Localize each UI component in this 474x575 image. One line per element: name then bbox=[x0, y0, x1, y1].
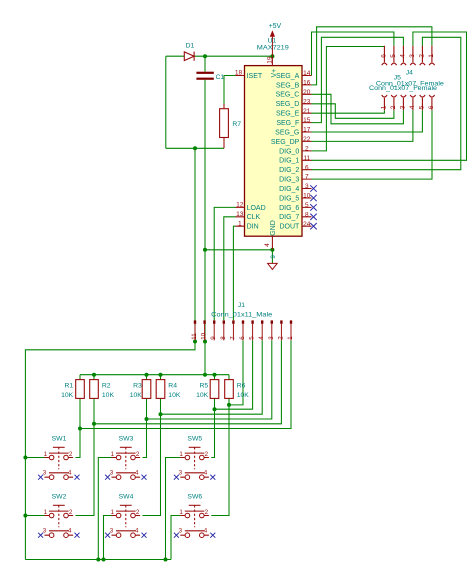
U1 pin stubs bbox=[236, 56, 312, 250]
svg-text:2: 2 bbox=[205, 509, 209, 516]
wire SEG_D to J5 pin2 bbox=[312, 104, 394, 119]
svg-text:2: 2 bbox=[418, 54, 425, 58]
svg-text:18: 18 bbox=[235, 70, 243, 77]
wire J1 pin5 to R5 bottom bus bbox=[215, 341, 253, 410]
svg-text:11: 11 bbox=[191, 333, 198, 340]
svg-text:DIG_6: DIG_6 bbox=[279, 205, 299, 212]
svg-text:SW6: SW6 bbox=[187, 493, 202, 500]
no-connect X SW2 pin3 bbox=[38, 533, 43, 538]
svg-text:10K: 10K bbox=[61, 392, 74, 399]
svg-text:R1: R1 bbox=[64, 382, 73, 389]
svg-text:9: 9 bbox=[210, 336, 217, 340]
svg-text:SW5: SW5 bbox=[187, 436, 202, 443]
wire J1 pin11 jog bbox=[25, 342, 195, 560]
wire LOAD to J1 pin 9 bbox=[214, 207, 235, 320]
power +5V symbol bbox=[271, 32, 275, 57]
svg-text:1: 1 bbox=[179, 451, 183, 458]
wire SW1 pin1 to left rail bbox=[25, 457, 44, 459]
wire DIG_2 to J4 pin2 bbox=[312, 37, 461, 169]
svg-text:3: 3 bbox=[305, 183, 309, 190]
wire J1 pin2 to R2 bottom bus bbox=[94, 341, 281, 424]
switch SW6 symbol bbox=[180, 505, 209, 537]
wire DIG_0 to J4 pin6 bbox=[312, 47, 385, 151]
svg-text:10: 10 bbox=[303, 193, 311, 200]
wire R1 top lead bbox=[79, 375, 81, 380]
no-connect X DOUT bbox=[310, 223, 316, 229]
wire R4 bottom to SW4 pin2 bbox=[143, 398, 161, 515]
resistor R3 body bbox=[142, 380, 151, 399]
wire CLK to J1 pin 8 bbox=[224, 217, 236, 320]
junction bottom rail col2b bbox=[102, 558, 106, 562]
resistor R6 body bbox=[225, 380, 234, 399]
wire bottom rail D1/C1/R7 bbox=[166, 147, 224, 149]
wire SW4 pin1 drop bbox=[104, 516, 112, 560]
svg-text:10K: 10K bbox=[130, 392, 143, 399]
diode D1 bbox=[184, 52, 194, 61]
resistor R2 body bbox=[90, 380, 99, 399]
svg-text:J1: J1 bbox=[238, 302, 245, 309]
svg-text:3: 3 bbox=[268, 336, 275, 340]
svg-text:Conn_01x07_Female: Conn_01x07_Female bbox=[369, 85, 437, 92]
svg-text:23: 23 bbox=[303, 98, 311, 105]
junction R5 bottom bbox=[213, 407, 217, 411]
wire SEG_C to J5 pin3 bbox=[312, 94, 404, 124]
svg-text:DIN: DIN bbox=[247, 224, 259, 231]
svg-text:3: 3 bbox=[179, 469, 183, 476]
svg-text:20: 20 bbox=[303, 89, 311, 96]
wire R1 bottom to SW1 pin2 bbox=[76, 398, 81, 457]
svg-text:1: 1 bbox=[428, 54, 435, 58]
switch SW5 symbol bbox=[180, 447, 209, 479]
svg-text:DIG_1: DIG_1 bbox=[279, 158, 299, 165]
no-connect X SW4 pin3 bbox=[105, 533, 110, 538]
no-connect X DIG_5 bbox=[310, 195, 316, 201]
junction SW2 pin1 rail bbox=[23, 514, 27, 518]
svg-text:2: 2 bbox=[136, 451, 140, 458]
switch SW3 symbol bbox=[112, 447, 141, 479]
svg-text:10K: 10K bbox=[237, 392, 250, 399]
junction resistor top bus bbox=[145, 373, 149, 377]
capacitor C1 bbox=[196, 72, 213, 80]
svg-text:6: 6 bbox=[428, 105, 435, 109]
svg-text:1: 1 bbox=[44, 451, 48, 458]
svg-text:ISET: ISET bbox=[247, 73, 263, 80]
svg-text:4: 4 bbox=[204, 527, 208, 534]
svg-text:Conn_01x11_Male: Conn_01x11_Male bbox=[211, 311, 272, 318]
wire R3 bottom to SW3 pin2 bbox=[143, 398, 147, 457]
svg-text:5: 5 bbox=[418, 105, 425, 109]
svg-text:3: 3 bbox=[399, 105, 406, 109]
wire J1 pin6 to R6 bottom bus bbox=[229, 341, 243, 405]
svg-text:7: 7 bbox=[305, 174, 309, 181]
svg-text:1: 1 bbox=[287, 336, 294, 340]
svg-text:R5: R5 bbox=[199, 382, 208, 389]
wire R3 top lead bbox=[146, 375, 148, 380]
svg-text:LOAD: LOAD bbox=[247, 205, 266, 212]
switch SW4 symbol bbox=[112, 505, 141, 537]
svg-text:2: 2 bbox=[136, 509, 140, 516]
svg-text:R6: R6 bbox=[237, 382, 246, 389]
svg-text:MAX7219: MAX7219 bbox=[257, 45, 289, 52]
svg-text:SEG_A: SEG_A bbox=[276, 73, 300, 80]
wire resistor top bus bbox=[80, 374, 229, 376]
svg-text:SW1: SW1 bbox=[52, 436, 67, 443]
no-connect X SW5 pin4 bbox=[210, 475, 215, 480]
svg-text:DIG_7: DIG_7 bbox=[279, 214, 299, 221]
no-connect X DIG_6 bbox=[310, 204, 316, 210]
wire GND to C1 column bbox=[205, 249, 272, 251]
wire SEG_B to J4 pin1 bbox=[312, 27, 432, 85]
no-connect X SW1 pin4 bbox=[75, 475, 80, 480]
svg-text:10K: 10K bbox=[168, 392, 181, 399]
wire DIN to J1 pin 7 bbox=[233, 226, 235, 320]
svg-text:5: 5 bbox=[249, 336, 256, 340]
svg-text:R3: R3 bbox=[133, 382, 142, 389]
wire J1 pin1 to R1 bottom bus bbox=[80, 341, 291, 429]
svg-text:7: 7 bbox=[229, 336, 236, 340]
svg-text:5: 5 bbox=[390, 54, 397, 58]
svg-text:J4: J4 bbox=[406, 70, 413, 77]
svg-text:3: 3 bbox=[110, 469, 114, 476]
wire bottom common rail bbox=[25, 559, 171, 561]
svg-text:SEG_F: SEG_F bbox=[276, 120, 299, 127]
svg-text:SEG_G: SEG_G bbox=[275, 129, 299, 136]
wire rail down-column to J1 pin 11 bbox=[194, 148, 196, 341]
svg-text:DIG_3: DIG_3 bbox=[279, 177, 299, 184]
svg-text:R7: R7 bbox=[232, 121, 241, 128]
svg-text:21: 21 bbox=[303, 108, 311, 115]
wire SW3 pin1 drop bbox=[98, 458, 111, 560]
junction R3 bottom bbox=[145, 417, 149, 421]
wire diode cathode to V+ pin bbox=[194, 55, 272, 57]
svg-text:5: 5 bbox=[305, 202, 309, 209]
no-connect X SW1 pin3 bbox=[38, 475, 43, 480]
svg-text:17: 17 bbox=[303, 127, 311, 134]
svg-text:SEG_E: SEG_E bbox=[276, 111, 300, 118]
no-connect X DIG_4 bbox=[310, 185, 316, 191]
svg-text:4: 4 bbox=[68, 469, 72, 476]
wire R2 top lead bbox=[93, 375, 95, 380]
junction resistor top bus bbox=[92, 373, 96, 377]
wire SW5 pin1 drop bbox=[166, 458, 181, 560]
svg-text:6: 6 bbox=[380, 54, 387, 58]
svg-text:J5: J5 bbox=[394, 74, 401, 81]
svg-text:SEG_C: SEG_C bbox=[276, 92, 300, 99]
connector J5 Conn_01x07_Female pins bbox=[382, 95, 435, 110]
wire C1 top lead bbox=[204, 56, 206, 71]
junction R6 bottom bbox=[227, 403, 231, 407]
wire left drop from diode anode bbox=[165, 56, 167, 148]
junction V+ pin bbox=[270, 54, 274, 58]
svg-text:11: 11 bbox=[303, 155, 310, 162]
wire R5 top lead bbox=[214, 375, 216, 380]
svg-text:6: 6 bbox=[239, 336, 246, 340]
wire SEG_DP to J5 pin4 bbox=[312, 110, 413, 141]
svg-text:GND: GND bbox=[270, 220, 277, 236]
junction resistor top bus bbox=[213, 373, 217, 377]
wire DIG_1 to J4 pin3 bbox=[312, 32, 467, 160]
resistor R5 body bbox=[210, 380, 219, 399]
svg-text:DIG_2: DIG_2 bbox=[279, 167, 299, 174]
junction SW1 pin1 rail bbox=[23, 456, 27, 460]
svg-text:3: 3 bbox=[43, 527, 47, 534]
svg-text:2: 2 bbox=[305, 146, 309, 153]
no-connect X SW3 pin4 bbox=[142, 475, 147, 480]
wire SW2 pin1 to left rail bbox=[25, 515, 44, 517]
svg-text:U1: U1 bbox=[267, 38, 276, 45]
svg-text:DIG_4: DIG_4 bbox=[279, 186, 299, 193]
wire R4 top lead bbox=[160, 375, 162, 380]
wire R6 bottom to SW6 pin2 bbox=[211, 398, 229, 515]
svg-text:2: 2 bbox=[205, 451, 209, 458]
wire +5V rail to diode anode bbox=[166, 55, 185, 57]
resistor R4 body bbox=[156, 380, 165, 399]
wire C1 bottom / column to J1 pin 10 and resistor bus bbox=[204, 80, 206, 375]
svg-text:9: 9 bbox=[270, 255, 277, 259]
op-amp U1 MAX7219 body bbox=[245, 66, 303, 237]
svg-text:1: 1 bbox=[179, 509, 183, 516]
svg-text:3: 3 bbox=[43, 469, 47, 476]
svg-text:10K: 10K bbox=[102, 392, 115, 399]
no-connect X SW2 pin4 bbox=[75, 533, 80, 538]
switch SW2 symbol bbox=[45, 505, 74, 537]
junction resistor top bus bbox=[203, 373, 207, 377]
svg-text:16: 16 bbox=[303, 80, 311, 87]
junction GND pin bbox=[270, 248, 274, 252]
svg-text:10: 10 bbox=[201, 332, 208, 339]
wire SEG_F to J4 pin4 bbox=[312, 37, 404, 122]
svg-text:6: 6 bbox=[305, 164, 309, 171]
svg-text:+5V: +5V bbox=[269, 23, 282, 30]
svg-text:4: 4 bbox=[135, 527, 139, 534]
no-connect X SW5 pin3 bbox=[174, 475, 179, 480]
svg-text:4: 4 bbox=[258, 336, 265, 340]
svg-text:DOUT: DOUT bbox=[279, 224, 300, 231]
wire J1 pin3 to R3 bottom bus bbox=[147, 341, 272, 420]
junction resistor top bus bbox=[159, 373, 163, 377]
svg-text:SW3: SW3 bbox=[119, 436, 134, 443]
wire J1 pin4 to R4 bottom bus bbox=[161, 341, 263, 415]
svg-text:C1: C1 bbox=[216, 74, 225, 81]
svg-text:1: 1 bbox=[380, 105, 387, 109]
svg-text:22: 22 bbox=[303, 136, 311, 143]
resistor R1 body bbox=[76, 380, 85, 399]
wire SEG_G to J5 pin5 bbox=[312, 110, 423, 132]
svg-text:SEG_DP: SEG_DP bbox=[271, 139, 300, 146]
svg-text:15: 15 bbox=[303, 117, 311, 124]
svg-text:4: 4 bbox=[409, 105, 416, 109]
no-connect X SW6 pin3 bbox=[174, 533, 179, 538]
wire R2 bottom to SW2 pin2 bbox=[76, 398, 95, 515]
no-connect X SW6 pin4 bbox=[210, 533, 215, 538]
no-connect X SW4 pin4 bbox=[142, 533, 147, 538]
junction R2 bottom bbox=[92, 422, 96, 426]
svg-text:DIG_0: DIG_0 bbox=[279, 148, 299, 155]
svg-text:24: 24 bbox=[303, 221, 311, 228]
junction R1 bottom bbox=[78, 427, 82, 431]
svg-text:CLK: CLK bbox=[247, 214, 261, 221]
svg-text:1: 1 bbox=[44, 509, 48, 516]
junction diode-C1-V+ bbox=[203, 54, 207, 58]
svg-text:SW4: SW4 bbox=[119, 493, 134, 500]
svg-text:4: 4 bbox=[204, 469, 208, 476]
svg-text:2: 2 bbox=[69, 509, 73, 516]
ground symbol bbox=[268, 263, 278, 269]
svg-text:3: 3 bbox=[409, 54, 416, 58]
svg-text:SEG_B: SEG_B bbox=[276, 82, 300, 89]
svg-text:1: 1 bbox=[111, 509, 115, 516]
wire GND pin to ground symbol bbox=[271, 250, 273, 263]
svg-text:19: 19 bbox=[267, 56, 274, 64]
connector J4 Conn_01x07_Female pins bbox=[382, 46, 435, 65]
junction GND wire / C1 column bbox=[203, 248, 207, 252]
wire SEG_A to J4 pin5 bbox=[312, 32, 394, 76]
connector J1 Conn_01x11_Male pins bbox=[194, 320, 292, 323]
junction J1 pin10 bbox=[203, 340, 207, 344]
svg-text:4: 4 bbox=[399, 54, 406, 58]
wire SEG_E to J5 pin1 bbox=[312, 110, 385, 113]
svg-text:3: 3 bbox=[179, 527, 183, 534]
svg-text:SEG_D: SEG_D bbox=[276, 101, 300, 108]
no-connect X SW3 pin3 bbox=[105, 475, 110, 480]
junction J1 pin11 bbox=[193, 340, 197, 344]
resistor R7 body bbox=[220, 104, 229, 148]
svg-text:R2: R2 bbox=[102, 382, 111, 389]
svg-text:2: 2 bbox=[69, 451, 73, 458]
svg-text:13: 13 bbox=[236, 211, 244, 218]
junction bottom rail col2a bbox=[96, 558, 100, 562]
svg-text:14: 14 bbox=[303, 70, 311, 77]
svg-text:8: 8 bbox=[305, 211, 309, 218]
svg-text:DIG_5: DIG_5 bbox=[279, 195, 299, 202]
no-connect X DIG_7 bbox=[310, 214, 316, 220]
svg-text:4: 4 bbox=[135, 469, 139, 476]
wire DIG_3 to J5 pin6 bbox=[312, 110, 433, 179]
wire R6 top lead bbox=[228, 375, 230, 380]
svg-text:10K: 10K bbox=[196, 392, 209, 399]
junction R4 bottom bbox=[159, 412, 163, 416]
svg-text:SW2: SW2 bbox=[52, 493, 67, 500]
svg-text:8: 8 bbox=[220, 336, 227, 340]
wire R5 bottom to SW5 pin2 bbox=[211, 398, 214, 457]
svg-text:D1: D1 bbox=[186, 42, 195, 49]
junction rail / J1 pin11 column bbox=[193, 146, 197, 150]
svg-text:3: 3 bbox=[110, 527, 114, 534]
svg-text:1: 1 bbox=[238, 220, 242, 227]
svg-text:12: 12 bbox=[236, 202, 244, 209]
svg-text:2: 2 bbox=[277, 336, 284, 340]
svg-text:1: 1 bbox=[111, 451, 115, 458]
svg-text:4: 4 bbox=[264, 243, 271, 247]
switch SW1 symbol bbox=[45, 447, 74, 479]
svg-text:R4: R4 bbox=[168, 382, 177, 389]
svg-text:4: 4 bbox=[68, 527, 72, 534]
svg-text:2: 2 bbox=[390, 105, 397, 109]
wire ISET to R7 top bbox=[224, 76, 236, 105]
junction bottom rail col3a bbox=[164, 558, 168, 562]
wire SW6 pin1 drop bbox=[171, 516, 180, 560]
svg-text:V+: V+ bbox=[271, 69, 278, 78]
